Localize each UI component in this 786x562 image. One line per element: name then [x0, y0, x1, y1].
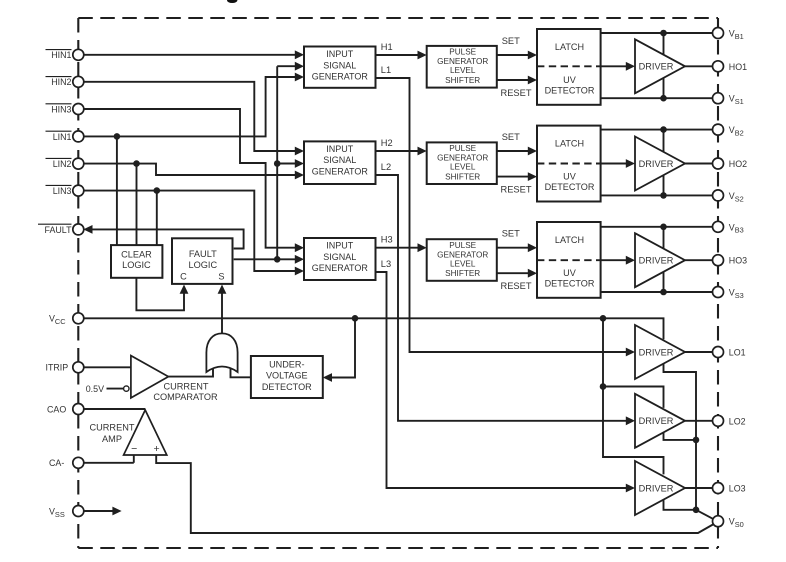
- svg-text:HIN1: HIN1: [51, 50, 71, 60]
- svg-text:PULSE: PULSE: [449, 241, 476, 250]
- svg-text:PULSE: PULSE: [449, 48, 476, 57]
- block FAULT LOGIC: [172, 238, 233, 284]
- wire latch 3 to V_B3 pin: [601, 226, 713, 228]
- wire CAO to current amp: [78, 408, 145, 410]
- wire driver 1 supply tap: [663, 33, 665, 55]
- cut-off caption text fragment: [227, 0, 237, 3]
- wire UV detector 2 to V_S2 pin: [601, 194, 713, 196]
- svg-text:HO2: HO2: [729, 159, 747, 169]
- block LATCH / UV DETECTOR 2: [537, 126, 601, 202]
- svg-text:SET: SET: [502, 36, 520, 46]
- block LATCH / UV DETECTOR 1: [537, 29, 601, 105]
- wire L3 output to LO3 driver: [376, 259, 636, 492]
- pin HO1: [713, 61, 748, 72]
- svg-text:GENERATOR: GENERATOR: [437, 250, 488, 259]
- svg-text:H3: H3: [381, 235, 393, 245]
- svg-text:SIGNAL: SIGNAL: [323, 252, 356, 262]
- wire LIN1 to ISG1 bottom input: [78, 73, 304, 137]
- wire SET row 1: [497, 36, 537, 60]
- svg-text:HIN3: HIN3: [51, 104, 71, 114]
- wire LO3 driver return: [664, 500, 697, 510]
- wire LO2 driver return: [664, 432, 697, 439]
- wire comparator output to OR gate: [168, 365, 213, 377]
- wire HIN1 to ISG1 top input: [78, 50, 304, 59]
- wire return rail to VS0 pin: [696, 510, 714, 519]
- svg-text:UV: UV: [563, 268, 577, 278]
- svg-text:VOLTAGE: VOLTAGE: [266, 371, 308, 381]
- wire H1 output to pulse generator: [376, 42, 427, 59]
- wire driver 3 output to HO3 pin: [685, 259, 713, 261]
- wire FAULT LOGIC output to ISG middle inputs: [234, 62, 304, 264]
- svg-text:UNDER-: UNDER-: [269, 359, 304, 369]
- svg-text:FAULT: FAULT: [45, 225, 73, 235]
- wire CLEAR LOGIC to FAULT LOGIC C input: [136, 277, 188, 310]
- junction V_S2 driver return: [660, 192, 667, 199]
- wire LIN2 tap to CLEAR LOGIC: [136, 164, 138, 246]
- wire FAULT LOGIC to FAULT pin: [83, 225, 243, 249]
- reference 0.5V label and wire: [86, 384, 129, 394]
- wire SET row 2: [497, 132, 537, 156]
- pin VS2: [713, 190, 744, 203]
- wire VCC to UV detector input: [323, 318, 355, 382]
- driver 3 (high side): [635, 233, 685, 287]
- pin VB1: [713, 28, 744, 41]
- wire driver 2 supply tap: [663, 130, 665, 152]
- pin VS0: [713, 516, 744, 529]
- svg-text:DRIVER: DRIVER: [639, 483, 674, 493]
- svg-text:+: +: [154, 443, 160, 455]
- svg-text:DRIVER: DRIVER: [639, 347, 674, 357]
- pin LIN3: [46, 185, 84, 196]
- svg-text:UV: UV: [563, 171, 577, 181]
- pin LO2: [713, 415, 746, 426]
- wire H2 output to pulse generator: [376, 138, 427, 155]
- wire UV detector output to OR gate: [231, 365, 251, 377]
- svg-text:LIN1: LIN1: [53, 132, 72, 142]
- svg-text:C: C: [180, 272, 187, 282]
- wire VCC rail: [78, 318, 663, 339]
- pin HIN1: [46, 49, 84, 60]
- junction V_S3 driver return: [660, 289, 667, 296]
- pin VCC: [49, 313, 84, 326]
- op-amp current comparator: [131, 356, 169, 398]
- pin LIN2: [46, 158, 84, 169]
- OR gate: [206, 333, 237, 372]
- wire LIN3 tap to CLEAR LOGIC: [156, 191, 158, 246]
- wire HIN3 to ISG3 top input: [78, 109, 304, 252]
- junction V_B3 driver supply: [660, 224, 667, 231]
- svg-text:GENERATOR: GENERATOR: [437, 154, 488, 163]
- pin CAO: [47, 404, 84, 415]
- svg-text:CURRENT: CURRENT: [164, 382, 209, 392]
- pin HIN3: [46, 104, 84, 115]
- svg-text:DRIVER: DRIVER: [639, 416, 674, 426]
- svg-text:DRIVER: DRIVER: [639, 62, 674, 72]
- wire latch 2 to driver input: [601, 159, 635, 168]
- pin VSS: [49, 506, 84, 519]
- pin VB3: [713, 221, 744, 234]
- svg-text:SET: SET: [502, 132, 520, 142]
- wire UV detector 3 to V_S3 pin: [601, 291, 713, 293]
- wire VSS stub: [78, 507, 121, 516]
- svg-text:SHIFTER: SHIFTER: [445, 172, 480, 181]
- svg-text:HO3: HO3: [729, 256, 747, 266]
- wire latch 2 to V_B2 pin: [601, 129, 713, 131]
- wire latch 1 to V_B1 pin: [601, 32, 713, 34]
- wire driver 3 return tap: [663, 272, 665, 292]
- IC boundary dashed border top: [78, 17, 718, 19]
- junction fault net at ISG2 input: [274, 160, 281, 167]
- svg-text:GENERATOR: GENERATOR: [437, 57, 488, 66]
- svg-text:LATCH: LATCH: [555, 235, 584, 245]
- pin FAULT: [38, 224, 84, 235]
- junction fault net at ISG3 input: [274, 256, 281, 263]
- svg-text:DETECTOR: DETECTOR: [545, 86, 595, 96]
- wire RESET row 3: [497, 269, 537, 291]
- svg-text:GENERATOR: GENERATOR: [312, 72, 369, 82]
- svg-text:SIGNAL: SIGNAL: [323, 60, 356, 70]
- pin HO3: [713, 255, 748, 266]
- block CLEAR LOGIC: [111, 245, 162, 278]
- wire LIN1 tap to CLEAR LOGIC: [116, 136, 118, 245]
- svg-text:LOGIC: LOGIC: [189, 260, 218, 270]
- wire RESET row 2: [497, 172, 537, 194]
- driver LO3 (low side): [635, 461, 685, 515]
- driver 1 (high side): [635, 39, 685, 93]
- svg-text:H2: H2: [381, 138, 393, 148]
- wire driver LO1 output to LO1 pin: [685, 351, 713, 353]
- label CURRENT AMP: [90, 423, 135, 444]
- svg-text:LO1: LO1: [729, 348, 746, 358]
- block INPUT SIGNAL GENERATOR 1: [304, 47, 376, 88]
- label CURRENT COMPARATOR: [153, 382, 218, 403]
- svg-text:DRIVER: DRIVER: [639, 256, 674, 266]
- wire supply tap LO2 driver: [603, 387, 664, 408]
- wire driver LO3 output to LO3 pin: [685, 487, 713, 489]
- junction VCC to low-side rail: [600, 315, 607, 322]
- wire ITRIP to comparator: [78, 366, 131, 368]
- svg-text:LIN2: LIN2: [53, 159, 72, 169]
- pin VS1: [713, 93, 744, 106]
- svg-text:CURRENT: CURRENT: [90, 423, 135, 433]
- block INPUT SIGNAL GENERATOR 3: [304, 238, 376, 280]
- wire current amp non-inverting input to VS0: [156, 455, 714, 533]
- wire LIN2 to ISG2 bottom input: [78, 164, 304, 180]
- svg-text:LO2: LO2: [729, 416, 746, 426]
- IC boundary dashed border right: [717, 18, 719, 548]
- pin ITRIP: [46, 362, 84, 373]
- svg-text:INPUT: INPUT: [326, 49, 354, 59]
- svg-text:PULSE: PULSE: [449, 144, 476, 153]
- pin HIN2: [46, 76, 84, 87]
- svg-text:AMP: AMP: [102, 434, 122, 444]
- junction LO2 return: [693, 437, 700, 444]
- wire CA- to current amp inverting input: [78, 455, 134, 463]
- junction low-side rail to LO2 driver: [600, 383, 607, 390]
- svg-text:DETECTOR: DETECTOR: [545, 182, 595, 192]
- svg-text:ITRIP: ITRIP: [46, 363, 69, 373]
- block LATCH / UV DETECTOR 3: [537, 222, 601, 298]
- wire LIN3 to ISG3 bottom input: [78, 191, 304, 276]
- wire driver 2 return tap: [663, 175, 665, 195]
- pin VS3: [713, 287, 744, 300]
- svg-text:DRIVER: DRIVER: [639, 159, 674, 169]
- svg-text:L2: L2: [381, 162, 391, 172]
- svg-text:LATCH: LATCH: [555, 42, 584, 52]
- svg-text:LEVEL: LEVEL: [450, 260, 476, 269]
- svg-text:LIN3: LIN3: [53, 186, 72, 196]
- svg-text:LATCH: LATCH: [555, 139, 584, 149]
- pin CA-: [49, 457, 84, 468]
- svg-text:DETECTOR: DETECTOR: [262, 382, 312, 392]
- svg-text:LEVEL: LEVEL: [450, 163, 476, 172]
- wire latch 1 to driver input: [601, 62, 635, 71]
- svg-text:RESET: RESET: [501, 185, 532, 195]
- svg-text:CAO: CAO: [47, 404, 66, 414]
- driver 2 (high side): [635, 137, 685, 191]
- svg-text:INPUT: INPUT: [326, 144, 354, 154]
- pin LO3: [713, 483, 746, 494]
- junction LIN2 / clear-logic tap: [133, 160, 140, 167]
- wire LO1 driver return: [664, 364, 697, 510]
- pin LO1: [713, 347, 746, 358]
- svg-text:HIN2: HIN2: [51, 77, 71, 87]
- wire driver 1 return tap: [663, 78, 665, 98]
- junction V_B2 driver supply: [660, 126, 667, 133]
- wire driver 1 output to HO1 pin: [685, 65, 713, 67]
- wire UV detector 1 to V_S1 pin: [601, 97, 713, 99]
- svg-text:GENERATOR: GENERATOR: [312, 263, 369, 273]
- IC boundary dashed border bottom: [78, 547, 718, 549]
- svg-text:COMPARATOR: COMPARATOR: [153, 392, 218, 402]
- driver LO2 (low side): [635, 394, 685, 448]
- driver LO1 (low side): [635, 325, 685, 379]
- junction V_B1 driver supply: [660, 30, 667, 37]
- block PULSE GENERATOR LEVEL SHIFTER 1: [427, 46, 497, 88]
- wire low-side supply rail: [603, 318, 664, 474]
- pin VB2: [713, 124, 744, 137]
- junction LIN1 / clear-logic tap: [114, 133, 121, 140]
- wire OR gate to FAULT LOGIC S input: [218, 285, 227, 334]
- wire L1 output to LO1 driver: [376, 65, 636, 356]
- svg-text:SET: SET: [502, 229, 520, 239]
- svg-text:DETECTOR: DETECTOR: [545, 279, 595, 289]
- svg-text:HO1: HO1: [729, 62, 747, 72]
- IC boundary dashed border left: [77, 18, 79, 548]
- svg-text:0.5V: 0.5V: [86, 384, 104, 394]
- wire RESET row 1: [497, 76, 537, 98]
- junction V_S1 driver return: [660, 95, 667, 102]
- svg-text:L3: L3: [381, 259, 391, 269]
- block UNDER-VOLTAGE DETECTOR: [251, 356, 323, 398]
- op-amp current amp: [124, 410, 167, 455]
- svg-text:LEVEL: LEVEL: [450, 66, 476, 75]
- wire SET row 3: [497, 229, 537, 253]
- svg-text:SIGNAL: SIGNAL: [323, 155, 356, 165]
- wire HIN2 to ISG2 top input: [78, 82, 304, 156]
- junction VCC to UV detector: [352, 315, 359, 322]
- pin LIN1: [46, 131, 84, 142]
- svg-text:LOGIC: LOGIC: [122, 260, 151, 270]
- svg-text:RESET: RESET: [501, 88, 532, 98]
- svg-text:SHIFTER: SHIFTER: [445, 269, 480, 278]
- wire driver 3 supply tap: [663, 227, 665, 249]
- svg-text:RESET: RESET: [501, 281, 532, 291]
- svg-text:H1: H1: [381, 42, 393, 52]
- wire H3 output to pulse generator: [376, 235, 427, 252]
- svg-text:FAULT: FAULT: [189, 249, 217, 259]
- svg-text:−: −: [131, 443, 137, 455]
- pin HO2: [713, 158, 748, 169]
- svg-text:INPUT: INPUT: [326, 241, 354, 251]
- block PULSE GENERATOR LEVEL SHIFTER 3: [427, 239, 497, 281]
- wire latch 3 to driver input: [601, 256, 635, 265]
- wire driver LO2 output to LO2 pin: [685, 420, 713, 422]
- svg-text:LO3: LO3: [729, 484, 746, 494]
- svg-text:CLEAR: CLEAR: [121, 250, 152, 260]
- junction LO3 return: [693, 507, 700, 514]
- svg-text:S: S: [218, 272, 224, 282]
- junction LIN3 / clear-logic tap: [154, 187, 161, 194]
- svg-text:GENERATOR: GENERATOR: [312, 167, 369, 177]
- block INPUT SIGNAL GENERATOR 2: [304, 141, 376, 184]
- svg-text:L1: L1: [381, 65, 391, 75]
- svg-text:SHIFTER: SHIFTER: [445, 76, 480, 85]
- svg-text:CA-: CA-: [49, 458, 64, 468]
- svg-text:UV: UV: [563, 75, 577, 85]
- block PULSE GENERATOR LEVEL SHIFTER 2: [427, 142, 497, 184]
- wire driver 2 output to HO2 pin: [685, 163, 713, 165]
- wire L2 output to LO2 driver: [376, 162, 636, 425]
